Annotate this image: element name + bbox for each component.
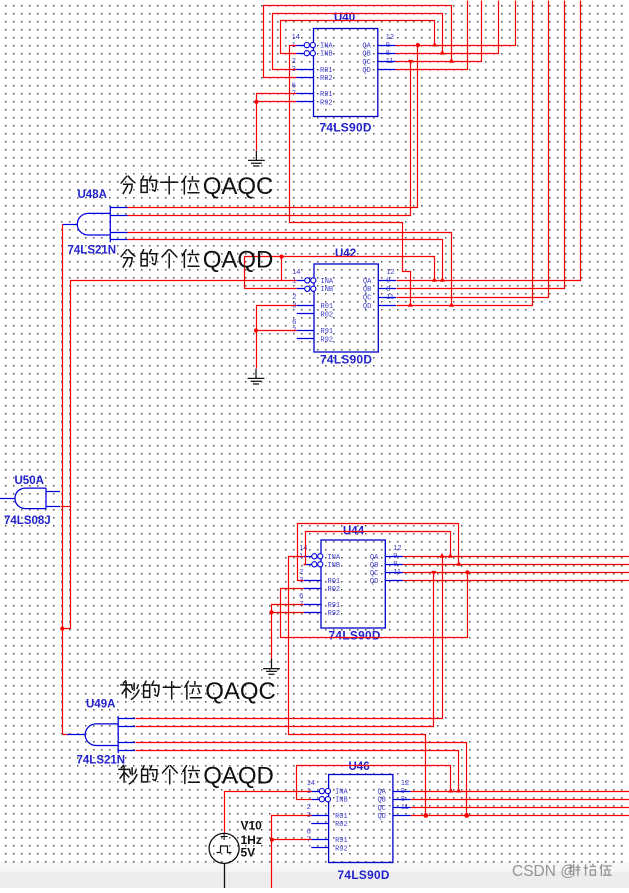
- svg-text:1: 1: [299, 551, 303, 560]
- svg-text:CSDN @: CSDN @: [512, 863, 576, 880]
- junction U46 R91 tie: [270, 838, 274, 842]
- gate U48A (4-input AND 74LS21N) input stub 1: [110, 207, 127, 209]
- wire U42 QD row to top: [397, 1, 533, 306]
- svg-text:QA: QA: [362, 43, 371, 51]
- junction U46 QA row at x459: [456, 788, 461, 793]
- IC U42 pin QC stub: [378, 297, 396, 299]
- wire U40 INB from QA loop (top): [281, 21, 435, 54]
- wire U49A in3 to U46 QD: [136, 743, 467, 816]
- svg-text:74LS90D: 74LS90D: [338, 868, 390, 882]
- svg-text:74LS08J: 74LS08J: [4, 515, 51, 527]
- junction U42 R91 tie: [254, 328, 258, 332]
- wire U42 R01 R91 to ground: [257, 306, 297, 369]
- svg-text:INA: INA: [321, 278, 334, 286]
- wire U48A in3 to U42 QD: [128, 233, 452, 306]
- junction U44 QA row at x450: [448, 553, 453, 558]
- junction U42 QA row at x442: [440, 277, 445, 282]
- svg-text:5V: 5V: [241, 846, 256, 860]
- svg-text:QD: QD: [377, 813, 385, 821]
- wire U49A in4 to U46 QA: [136, 751, 459, 792]
- IC U46 pin R91 stub: [311, 839, 328, 841]
- gate U49A (4-input AND 74LS21N) input stub 1: [118, 718, 135, 720]
- wire U42 INA row from U50A net: [70, 280, 297, 282]
- svg-text:74LS21N: 74LS21N: [77, 755, 126, 767]
- junction U40 R92 tie: [254, 100, 258, 104]
- svg-text:QD: QD: [370, 578, 378, 586]
- svg-text:QAQD: QAQD: [203, 246, 274, 273]
- IC U40 pin R91 stub: [296, 93, 313, 95]
- wire U46 QD row to right edge: [411, 815, 629, 817]
- IC U40 pin R02 stub: [296, 77, 313, 79]
- svg-text:INB: INB: [328, 562, 341, 570]
- wire U42 INB stub link: [244, 288, 296, 290]
- ground GND2 (U42): [248, 369, 265, 384]
- svg-text:R92: R92: [328, 610, 341, 618]
- svg-text:R01: R01: [321, 303, 334, 311]
- wire U44 R01 from QB loop: [298, 524, 459, 581]
- IC U40 pin R01 stub: [296, 69, 313, 71]
- svg-text:R92: R92: [335, 845, 348, 853]
- IC U44 pin INB clock bubbles: [312, 562, 317, 567]
- junction U42 link T: [279, 255, 283, 259]
- wire U44 R91 R92 to ground: [272, 605, 304, 660]
- gate U50A (2-input AND 74LS08J) input stub 2: [46, 506, 60, 508]
- svg-text:R02: R02: [320, 75, 333, 83]
- bottom gray band: [0, 863, 629, 889]
- IC U40 pin INA stub: [296, 45, 313, 47]
- gate U48A (4-input AND 74LS21N) input stub 3: [110, 232, 127, 234]
- gate U49A (4-input AND 74LS21N) body: [85, 716, 118, 753]
- IC U46 pin R02 stub: [311, 823, 328, 825]
- IC U42 pin INB stub: [297, 288, 314, 290]
- svg-text:11: 11: [393, 567, 401, 576]
- svg-text:R91: R91: [321, 328, 334, 336]
- svg-text:INB: INB: [320, 51, 333, 59]
- wire U40 QC row to top: [396, 1, 482, 62]
- IC U44 pin R92 stub: [304, 612, 321, 614]
- IC U44 pin QA stub: [385, 556, 403, 558]
- source V10 square wave glyph: [217, 846, 232, 853]
- wire U46 QB row to right edge: [411, 799, 629, 801]
- svg-text:3: 3: [292, 64, 296, 73]
- svg-text:1: 1: [307, 786, 311, 795]
- ground GND1 (U40): [248, 151, 265, 166]
- wire V10 to U46 INA: [225, 792, 312, 834]
- svg-text:INB: INB: [335, 797, 348, 805]
- wire U40 R02 from QC loop (top): [264, 6, 452, 78]
- wire U44 QD row to right edge: [403, 580, 629, 582]
- text label seconds-tens 秒的十位QAQC: [121, 681, 139, 700]
- wire U44 INB from QA loop: [304, 532, 451, 565]
- wire U40 QB row to top: [396, 1, 499, 54]
- wire U40 R01 from QB loop (top): [273, 14, 443, 70]
- IC U44 pin INA clock bubbles: [312, 554, 317, 559]
- wire U42 QB row to top: [397, 1, 565, 289]
- junction U40 QA row at x435: [432, 42, 437, 47]
- IC U44 pin R02 stub: [304, 588, 321, 590]
- IC U40 body: [314, 29, 378, 117]
- wire U46 R01 R91 down off-page: [272, 816, 312, 889]
- junction U44 QC tap: [431, 571, 436, 576]
- IC U42 pin R02 stub: [297, 313, 314, 315]
- IC U40 pin QA stub: [378, 45, 396, 47]
- IC U42 pin QD stub: [378, 305, 396, 307]
- svg-text:QB: QB: [363, 286, 371, 294]
- junction U46 QD row at x467: [464, 813, 469, 818]
- junction U42 QA row at x434: [432, 277, 437, 282]
- svg-text:11: 11: [386, 292, 394, 301]
- source V10 circle: [209, 833, 239, 863]
- IC U44 pin INB stub: [304, 564, 321, 566]
- gate U48A (4-input AND 74LS21N) output lead: [62, 224, 77, 226]
- IC U40 pin INB clock bubbles: [304, 51, 309, 56]
- svg-text:R92: R92: [320, 99, 333, 107]
- IC U44 body: [321, 540, 385, 628]
- wire U42 QA row to top: [397, 1, 581, 281]
- wire U44 QA tap down to U49A in1: [136, 557, 443, 719]
- IC U42 pin QA stub: [378, 280, 396, 282]
- wire U40 QA tap down to U48A in1: [128, 46, 418, 208]
- IC U44 group: [299, 526, 403, 643]
- svg-text:11: 11: [386, 56, 394, 65]
- svg-text:QB: QB: [377, 797, 385, 805]
- wire U44 QC row to right edge: [403, 572, 629, 574]
- IC U44 pin INA stub: [304, 556, 321, 558]
- gate U50A (2-input AND 74LS08J) body: [15, 488, 46, 509]
- source V10 plus sign: [221, 833, 228, 840]
- text label minutes-tens 分的十位QAQC: [121, 176, 135, 193]
- wire U48A in4 to U42 QA: [128, 240, 443, 281]
- IC U46 pin R92 stub: [311, 847, 328, 849]
- svg-text:QAQD: QAQD: [203, 762, 274, 789]
- IC U42 pin QB stub: [378, 288, 396, 290]
- gate U50A (2-input AND 74LS08J) input stub 1: [46, 491, 60, 493]
- IC U46 body: [329, 775, 393, 863]
- svg-text:QB: QB: [362, 51, 370, 59]
- svg-text:U49A: U49A: [86, 699, 115, 711]
- svg-text:R01: R01: [328, 578, 341, 586]
- svg-text:QC: QC: [370, 570, 378, 578]
- svg-text:1: 1: [292, 40, 296, 49]
- svg-text:R02: R02: [335, 821, 348, 829]
- IC U42 pin R91 stub: [297, 330, 314, 332]
- IC U42 pin INA clock bubbles: [305, 278, 310, 283]
- svg-text:INB: INB: [321, 286, 334, 294]
- gate U49A (4-input AND 74LS21N) input stub 2: [118, 726, 135, 728]
- svg-text:INA: INA: [328, 554, 341, 562]
- wire U42 INA net down: [63, 281, 71, 629]
- wire U49A output lead red: [63, 734, 68, 736]
- junction U44 QC row at x467: [465, 570, 469, 574]
- wire U40 INA from U42 QD (staircase): [290, 46, 411, 306]
- svg-text:QC: QC: [362, 59, 370, 67]
- IC U40 pin QB stub: [378, 53, 396, 55]
- svg-text:QA: QA: [370, 554, 379, 562]
- gate U49A (4-input AND 74LS21N) input stub 4: [118, 750, 135, 752]
- IC U46 pin INB clock bubbles: [319, 797, 324, 802]
- svg-text:QC: QC: [377, 805, 385, 813]
- IC U44 pin QC stub: [385, 572, 403, 574]
- junction U40 QA tap: [416, 43, 420, 47]
- junction U40 QC tap: [408, 60, 413, 65]
- wire U44 R02 from QC return: [281, 573, 468, 638]
- wire U42 R91 tie: [256, 330, 297, 332]
- wire U40 QC tap down to U48A in2: [128, 62, 411, 216]
- IC U44 pin QD stub: [385, 580, 403, 582]
- IC U44 pin R91 stub: [304, 604, 321, 606]
- svg-text:QB: QB: [370, 562, 378, 570]
- svg-text:R01: R01: [335, 813, 348, 821]
- gate U49A group: [67, 699, 135, 767]
- gate U48A (4-input AND 74LS21N) body: [77, 206, 110, 242]
- svg-text:QA: QA: [377, 789, 386, 797]
- wire U42 INA T-branch: [281, 257, 283, 281]
- wire U46 R91 tie: [272, 839, 311, 841]
- wire U44 QB row to right edge: [403, 564, 629, 566]
- IC U40 pin QC stub: [378, 61, 396, 63]
- junction U40 QC row at x451: [449, 58, 454, 63]
- svg-text:V10: V10: [241, 819, 263, 833]
- svg-text:QAQC: QAQC: [203, 173, 274, 200]
- IC U46 pin R01 stub: [311, 815, 328, 817]
- svg-text:QA: QA: [363, 278, 372, 286]
- IC U46 pin INA stub: [311, 791, 328, 793]
- svg-text:7: 7: [299, 599, 303, 608]
- junction U40 QB row at x442: [440, 50, 445, 55]
- junction U44 QA tap: [440, 553, 445, 558]
- gate U49A (4-input AND 74LS21N) input stub 3: [118, 742, 135, 744]
- IC U46 pin QC stub: [393, 807, 411, 809]
- IC U42 pin R92 stub: [297, 338, 314, 340]
- junction U46 QA row at x451: [448, 788, 453, 793]
- IC U40 pin QD stub: [378, 69, 396, 71]
- svg-text:R91: R91: [320, 91, 333, 99]
- wire U48A output lead red: [62, 225, 64, 735]
- svg-text:74LS21N: 74LS21N: [68, 245, 117, 257]
- IC U46 pin INB stub: [311, 799, 328, 801]
- junction U46 QD row at x426: [423, 813, 428, 818]
- wire U44 QC tap down to U49A in2: [136, 573, 434, 727]
- wire U42 QC row to top: [397, 1, 549, 298]
- gate U50A group: [0, 475, 60, 527]
- wire U46 QC row to right edge: [411, 807, 629, 809]
- junction U44 R92 tie: [269, 610, 273, 614]
- svg-text:QAQC: QAQC: [205, 678, 276, 705]
- wire U46 QA row to right edge: [411, 791, 629, 793]
- svg-text:3: 3: [299, 575, 303, 584]
- svg-text:74LS90D: 74LS90D: [320, 353, 372, 367]
- IC U46 pin QD stub: [393, 815, 411, 817]
- wire U46 INB stub link: [296, 799, 311, 801]
- svg-text:QC: QC: [363, 295, 371, 303]
- svg-text:U42: U42: [335, 248, 356, 260]
- svg-text:QD: QD: [363, 303, 371, 311]
- gate U48A group: [62, 189, 127, 257]
- wire U46 INB QA link: [297, 766, 451, 800]
- IC U42 pin R01 stub: [297, 305, 314, 307]
- junction reset net join: [60, 627, 64, 631]
- svg-text:R91: R91: [328, 602, 341, 610]
- svg-text:INA: INA: [335, 789, 348, 797]
- text label minutes-ones 分的个位QAQD: [121, 250, 135, 267]
- wire U40 R91 R92 to ground: [257, 94, 297, 151]
- svg-text:74LS90D: 74LS90D: [320, 121, 372, 135]
- wire U40 R92 tie: [256, 101, 296, 103]
- svg-text:R02: R02: [328, 586, 341, 594]
- wire U40 QD row to top: [396, 1, 468, 70]
- wire U40 QA row to top: [396, 1, 516, 46]
- svg-text:U48A: U48A: [78, 189, 107, 201]
- svg-text:3: 3: [307, 810, 311, 819]
- svg-text:R92: R92: [321, 336, 334, 344]
- IC U40 group: [292, 12, 396, 135]
- wire U44 R92 tie: [272, 612, 304, 614]
- junction U44 QB row at x459: [456, 561, 461, 566]
- IC U46 group: [307, 761, 411, 882]
- source V10 group: [209, 819, 262, 889]
- wire U44 INA from U46 QD (staircase): [289, 557, 426, 816]
- gate U48A (4-input AND 74LS21N) input stub 4: [110, 239, 127, 241]
- IC U42 pin INB clock bubbles: [305, 286, 310, 291]
- gate U50A (2-input AND 74LS08J) output lead: [0, 498, 15, 500]
- svg-text:INA: INA: [320, 43, 333, 51]
- svg-text:R91: R91: [335, 837, 348, 845]
- IC U46 pin INA clock bubbles: [319, 789, 324, 794]
- svg-text:U46: U46: [349, 761, 370, 773]
- gate U49A (4-input AND 74LS21N) output lead: [67, 734, 85, 736]
- IC U42 pin INA stub: [297, 280, 314, 282]
- svg-text:74LS90D: 74LS90D: [329, 629, 381, 643]
- svg-text:R01: R01: [320, 67, 333, 75]
- IC U42 group: [292, 248, 396, 367]
- IC U44 pin R01 stub: [304, 580, 321, 582]
- source V10 bottom lead: [224, 863, 226, 888]
- IC U42 body: [314, 264, 378, 352]
- IC U40 pin R92 stub: [296, 101, 313, 103]
- svg-text:11: 11: [401, 802, 409, 811]
- IC U46 pin QB stub: [393, 799, 411, 801]
- IC U44 pin QB stub: [385, 564, 403, 566]
- wire U42 INB QA link (over chip): [245, 257, 435, 289]
- junction U42 QD row at x410: [408, 302, 413, 307]
- text label seconds-ones 秒的个位QAQD: [119, 765, 137, 784]
- gate U48A (4-input AND 74LS21N) input stub 2: [110, 215, 127, 217]
- junction U42 QD row at x451: [449, 302, 454, 307]
- svg-text:R02: R02: [321, 311, 334, 319]
- IC U46 pin QA stub: [393, 791, 411, 793]
- svg-text:QD: QD: [362, 67, 370, 75]
- IC U40 pin INA clock bubbles: [304, 43, 309, 48]
- wire U44 QA row to right edge: [403, 556, 629, 558]
- IC U40 pin INB stub: [296, 53, 313, 55]
- svg-text:U50A: U50A: [15, 475, 44, 487]
- wire U50A in2 to U42 INA net: [61, 506, 71, 508]
- ground GND3 (U44): [263, 659, 280, 674]
